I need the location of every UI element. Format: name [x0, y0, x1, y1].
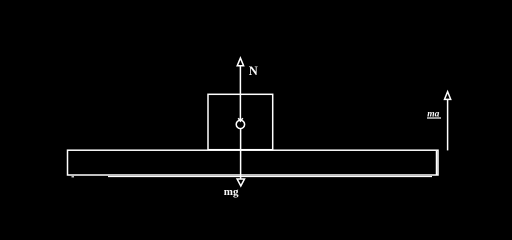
normal force arrowhead: [237, 58, 243, 66]
svg-text:N: N: [249, 64, 258, 78]
acceleration arrow (right side, line): [447, 99, 449, 150]
small arrowhead at circle top: [238, 118, 243, 121]
normal force arrow N (line): [239, 66, 241, 121]
svg-text:mg: mg: [224, 186, 239, 198]
acceleration arrowhead: [445, 92, 451, 100]
weight arrow mg (line): [240, 129, 242, 179]
small mark below plank left corner: [72, 176, 75, 178]
plank shadow line: [108, 176, 432, 178]
plank (long board rectangle): [68, 150, 439, 175]
plank right edge double line: [436, 151, 438, 175]
center circle (particle at block centre): [236, 120, 244, 128]
weight arrowhead: [237, 179, 244, 186]
label ma (underlined): [427, 109, 441, 119]
block (square on plank): [208, 94, 273, 149]
underline of ma label: [427, 117, 441, 119]
